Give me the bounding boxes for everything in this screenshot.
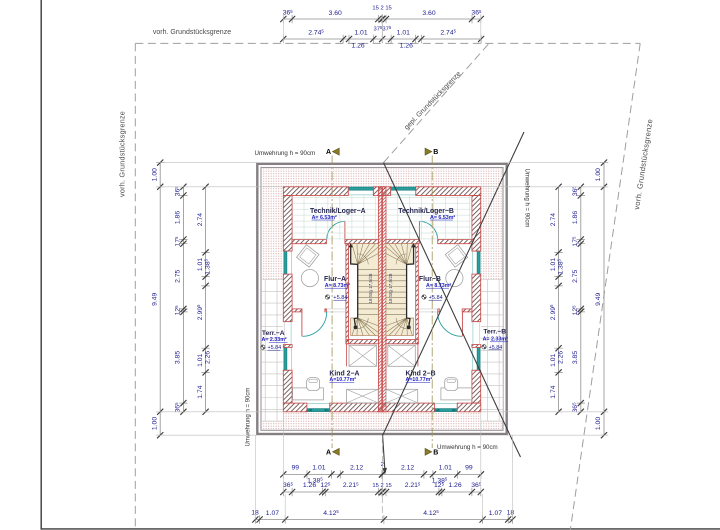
exterior wall west lower segment xyxy=(283,370,292,403)
desk Kind 2-B xyxy=(441,388,472,400)
window top unit B xyxy=(391,187,416,196)
tiled terrace floor grid Terr.-B tiles xyxy=(481,280,503,422)
tilted cabinet Flur-A xyxy=(297,245,319,267)
chair Kind 2-B xyxy=(445,378,458,391)
svg-text:1.74: 1.74 xyxy=(197,385,204,398)
svg-text:A: A xyxy=(326,449,331,456)
window bottom Kind 2-A xyxy=(307,403,330,412)
interior wall Flur/Kind A right stub xyxy=(325,309,327,312)
stairwell side wall B xyxy=(416,244,419,344)
svg-text:1.26: 1.26 xyxy=(351,42,364,49)
property boundary vorh. Grundstuecksgrenze right (dashed slanted) xyxy=(570,43,640,530)
svg-text:1.07: 1.07 xyxy=(489,510,502,517)
extension lines right xyxy=(507,162,609,164)
extension lines top xyxy=(282,14,284,43)
svg-text:A: A xyxy=(326,149,331,156)
door Technik/Lager-B with swing arc xyxy=(419,221,437,239)
axis flag B top xyxy=(425,148,432,155)
svg-text:18: 18 xyxy=(507,509,515,516)
axis flag A bottom xyxy=(333,448,340,455)
extension lines bottom xyxy=(282,412,284,492)
svg-text:1.01: 1.01 xyxy=(312,464,325,471)
tilted cabinet Flur-B xyxy=(445,245,467,267)
door Kind 2-A with swing arc xyxy=(302,312,326,336)
svg-text:3.60: 3.60 xyxy=(422,10,435,17)
svg-text:Umwehrung h = 90cm: Umwehrung h = 90cm xyxy=(524,169,530,228)
round table Flur-A xyxy=(301,270,318,287)
staircase unit B (winder stair) xyxy=(386,243,416,336)
stairwell side wall A xyxy=(346,244,349,344)
interior wall Flur/Kind B left stub xyxy=(438,309,440,312)
under-stair partition line A xyxy=(345,344,347,367)
dimension chain left column 1 (frame heights) xyxy=(159,163,161,436)
exterior wall top-right segment xyxy=(416,187,481,196)
window west Flur-A xyxy=(283,251,292,274)
svg-text:2.12: 2.12 xyxy=(401,464,414,471)
section line Q arrowhead xyxy=(382,468,387,475)
dimension chain bottom row 1 xyxy=(283,473,481,475)
axis line A (dash-dot) xyxy=(331,156,333,449)
under-stair partition line B xyxy=(417,344,419,367)
building interior white xyxy=(283,187,481,412)
svg-text:1.86: 1.86 xyxy=(175,211,182,224)
party wall right leaf xyxy=(383,187,386,412)
level marker symbol Flur-A +5.84 xyxy=(325,295,329,299)
svg-text:1.74: 1.74 xyxy=(550,385,557,398)
svg-text:1.26: 1.26 xyxy=(448,482,461,489)
door Technik/Lager-A with swing arc xyxy=(327,221,345,239)
terrace door opening west Terr.-A xyxy=(283,322,292,345)
dimension chain right column 3 xyxy=(558,187,560,412)
exterior wall bottom-right segment xyxy=(457,403,481,412)
exterior wall bottom-center segment xyxy=(330,403,435,412)
dimension chain bottom row 3 xyxy=(255,519,512,521)
page border left line xyxy=(40,0,42,530)
svg-text:3.85: 3.85 xyxy=(175,351,182,364)
terrace dotted floor xyxy=(262,169,502,430)
svg-text:Umwehrung h = 90cm: Umwehrung h = 90cm xyxy=(246,388,252,447)
svg-text:1.01: 1.01 xyxy=(397,29,410,36)
interior wall Technik/Flur A left part xyxy=(292,240,326,244)
svg-text:Terr.−A: Terr.−A xyxy=(262,330,285,337)
interior wall Technik/Flur B right part xyxy=(438,240,472,244)
svg-text:3.60: 3.60 xyxy=(329,10,342,17)
svg-text:1.00: 1.00 xyxy=(595,417,602,430)
property boundary vorh. Grundstuecksgrenze left (dashed vertical) xyxy=(134,43,136,530)
svg-text:1.01: 1.01 xyxy=(354,29,367,36)
svg-text:2.75: 2.75 xyxy=(175,269,182,282)
chair Kind 2-A xyxy=(307,378,320,391)
window top unit A xyxy=(348,187,373,196)
svg-text:1.07: 1.07 xyxy=(266,510,279,517)
svg-text:3.85: 3.85 xyxy=(572,351,579,364)
staircase unit A (winder stair) xyxy=(349,243,379,336)
svg-text:1.00: 1.00 xyxy=(595,168,602,181)
section line P (through party wall top to SE frame corner) xyxy=(384,163,521,457)
svg-text:9.49: 9.49 xyxy=(151,292,158,305)
exterior wall west middle segment xyxy=(283,274,292,322)
exterior wall west upper segment xyxy=(283,196,292,252)
interior wall Flur/Kind B right part xyxy=(462,309,472,312)
svg-text:1.00: 1.00 xyxy=(151,168,158,181)
level marker symbol Terr.-A +5.84 xyxy=(261,345,265,349)
svg-text:15 2 15: 15 2 15 xyxy=(372,6,391,12)
interior wall Flur/Kind A left part xyxy=(292,309,302,312)
svg-text:vorh. Grundstücksgrenze: vorh. Grundstücksgrenze xyxy=(118,111,127,197)
svg-text:1.00: 1.00 xyxy=(151,417,158,430)
svg-text:Terr.−B: Terr.−B xyxy=(483,329,506,336)
svg-text:99: 99 xyxy=(465,464,473,471)
window east Terr.-B xyxy=(472,347,481,370)
interior wall Technik/Flur B left part xyxy=(386,240,419,244)
window bottom Kind 2-B xyxy=(434,403,457,412)
floor tile grid Technik/Lager-B xyxy=(386,196,472,240)
svg-text:2.74: 2.74 xyxy=(550,213,557,226)
extension lines left xyxy=(156,162,257,164)
axis flag B bottom xyxy=(425,448,432,455)
exterior wall west stub between door and window xyxy=(283,345,292,348)
door Kind 2-B with swing arc xyxy=(438,312,462,336)
exterior wall east lower segment xyxy=(472,370,481,403)
exterior wall bottom-left segment xyxy=(283,403,307,412)
svg-text:Umwehrung h = 90cm: Umwehrung h = 90cm xyxy=(255,150,316,157)
terrace railing inner frame xyxy=(261,168,503,431)
svg-text:2.12: 2.12 xyxy=(350,464,363,471)
svg-text:1.26: 1.26 xyxy=(303,482,316,489)
dimension chain bottom row 2 xyxy=(283,491,481,493)
svg-text:Umwehrung h = 90cm: Umwehrung h = 90cm xyxy=(437,444,498,451)
exterior wall top-left segment xyxy=(283,187,348,196)
dimension chain right column 1 (frame heights) xyxy=(603,163,605,436)
center axis extension line xyxy=(381,14,383,43)
level marker symbol Terr.-B +5.84 xyxy=(482,345,486,349)
exterior wall east upper segment xyxy=(472,196,481,252)
svg-text:2.26: 2.26 xyxy=(557,351,564,364)
passage threshold lines Flur/Kind B xyxy=(418,308,438,310)
svg-text:1.01: 1.01 xyxy=(550,353,557,366)
window west Terr.-A xyxy=(283,347,292,370)
dimension chain left column 2 (room depths) xyxy=(182,187,184,412)
terrace railing outer frame xyxy=(257,164,506,434)
window east Flur-B xyxy=(472,251,481,274)
svg-text:1.26: 1.26 xyxy=(400,42,413,49)
dimension chain top row 2 xyxy=(283,38,481,40)
bed Kind 2-A xyxy=(347,389,379,403)
svg-text:vorh. Grundstücksgrenze: vorh. Grundstücksgrenze xyxy=(153,29,231,36)
property boundary gepl. Grundstuecksgrenze (dashed diagonal) xyxy=(384,44,489,162)
axis line B (dash-dot) xyxy=(431,156,433,449)
desk Kind 2-A xyxy=(293,388,324,400)
svg-text:9.49: 9.49 xyxy=(595,292,602,305)
svg-text:B: B xyxy=(433,149,438,156)
round table Flur-B xyxy=(446,270,463,287)
page border bottom line xyxy=(41,528,720,530)
section line Q (NE frame corner to party wall bottom) xyxy=(383,132,524,472)
exterior wall top-center segment xyxy=(373,187,390,196)
wardrobe Kind 2-A xyxy=(349,345,377,366)
svg-text:1.86: 1.86 xyxy=(572,211,579,224)
svg-text:18 Stg 17,5/28: 18 Stg 17,5/28 xyxy=(368,273,373,303)
floor tile grid Technik/Lager-A xyxy=(292,196,378,240)
interior wall Technik/Flur A right part xyxy=(345,240,379,244)
svg-text:99: 99 xyxy=(292,464,300,471)
stairwell bottom wall B xyxy=(386,340,418,344)
bed Kind 2-B xyxy=(386,389,418,403)
dimension chain right column 2 (room depths) xyxy=(580,187,582,412)
stairwell bottom wall A xyxy=(346,340,379,344)
level marker symbol Flur-B +5.84 xyxy=(422,295,426,299)
svg-text:2.26: 2.26 xyxy=(204,351,211,364)
svg-text:2.74: 2.74 xyxy=(197,213,204,226)
svg-text:2.75: 2.75 xyxy=(572,269,579,282)
terrace door opening east Terr.-B xyxy=(472,322,481,345)
axis flag A top xyxy=(333,148,340,155)
party wall left leaf xyxy=(378,187,381,412)
exterior wall east stub between door and window xyxy=(472,345,481,348)
svg-text:18 Stg 17,5/28: 18 Stg 17,5/28 xyxy=(388,273,393,303)
tiled terrace floor grid Terr.-A tiles xyxy=(262,280,283,422)
wardrobe Kind 2-B xyxy=(388,345,416,366)
dimension chain left column 3 xyxy=(205,187,207,412)
svg-text:1.01: 1.01 xyxy=(439,464,452,471)
svg-text:1.01: 1.01 xyxy=(197,353,204,366)
dimension chain top row 1 xyxy=(283,18,481,20)
exterior wall east middle segment xyxy=(472,274,481,322)
property boundary vorh. Grundstuecksgrenze top (dashed horizontal) xyxy=(135,42,640,44)
passage threshold lines Flur/Kind A xyxy=(326,308,346,310)
